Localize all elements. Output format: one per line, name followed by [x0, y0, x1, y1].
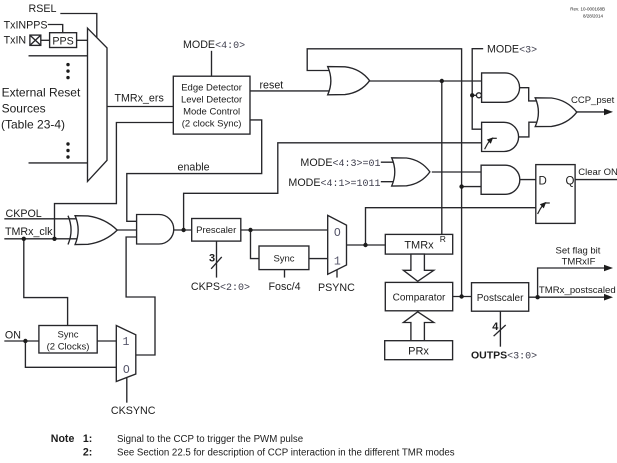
box Prescaler — [192, 219, 241, 242]
mux CKSYNC — [116, 326, 136, 382]
svg-text:1: 1 — [123, 336, 130, 349]
svg-text:O: O — [334, 227, 341, 240]
wire comparator signal to clearON AND — [462, 186, 482, 188]
ellipsis dots external sources bottom — [66, 142, 69, 145]
svg-text:Signal to the CCP to trigger t: Signal to the CCP to trigger the PWM pul… — [117, 434, 303, 445]
wire OR output to AND gates — [369, 80, 481, 82]
inverter bubble on MODE<3> input — [476, 93, 481, 98]
wire TMRx_clk down to sync2clocks — [24, 239, 68, 326]
svg-text:TxINPPS: TxINPPS — [4, 20, 48, 32]
and-gate CCP bottom (edge triggered) — [482, 122, 519, 151]
junction postscaler out — [535, 295, 539, 299]
svg-text:4: 4 — [492, 321, 499, 333]
svg-text:1:: 1: — [83, 433, 92, 445]
wire DFF clock — [366, 208, 536, 245]
wire MODE<4:0> stub — [211, 52, 213, 77]
junction TMRx_clk / mode control branch — [52, 237, 56, 241]
svg-text:CKPOL: CKPOL — [6, 208, 42, 220]
arrowhead TMRxIF — [604, 265, 613, 272]
svg-text:CKPS<2:0>: CKPS<2:0> — [191, 281, 250, 294]
svg-text:TMRxIF: TMRxIF — [562, 257, 596, 268]
svg-text:CCP_pset: CCP_pset — [571, 95, 615, 106]
svg-text:MODE<4:1>=1011: MODE<4:1>=1011 — [288, 177, 380, 190]
junction mux out / DFF clock — [363, 243, 367, 247]
bus slash CKPS — [212, 257, 222, 268]
svg-text:Sync: Sync — [273, 254, 294, 265]
wire prescaler out down to sync — [251, 230, 260, 259]
svg-text:TMRx: TMRx — [404, 239, 434, 251]
wire PSYNC select stub — [336, 270, 338, 277]
wire TxINPPS to PPS box — [49, 25, 63, 33]
svg-text:MODE<4:0>: MODE<4:0> — [183, 39, 245, 52]
wire PSYNC mux out to TMRx — [347, 244, 386, 246]
box Edge Detector / Level Detector / Mode Control — [173, 76, 250, 134]
svg-text:MODE<3>: MODE<3> — [487, 44, 537, 57]
or-gate CCP_pset — [535, 98, 577, 127]
and-gate clock gate AND1 — [137, 215, 174, 245]
junction AND1 out / clock branch — [181, 228, 185, 232]
junction ON / bypass branch — [23, 339, 27, 343]
wire OUTPS bus — [499, 311, 501, 346]
wire sync out to PSYNC mux 1 — [309, 258, 328, 260]
block arrow TMRx to comparator — [403, 254, 433, 281]
junction prescaler out / sync branch — [248, 228, 252, 232]
box Postscaler — [472, 283, 529, 312]
svg-text:2:: 2: — [83, 446, 92, 458]
svg-text:Sources: Sources — [2, 102, 46, 116]
arrowhead TMRx_postscaled — [604, 294, 613, 301]
wire MODE<4:1>=1011 input — [382, 181, 399, 183]
bus slash OUTPS — [494, 326, 505, 336]
svg-text:(2 clock Sync): (2 clock Sync) — [182, 119, 242, 130]
wire MODE<4:3>=01 input — [382, 161, 399, 163]
junction OR out / R line — [440, 79, 444, 83]
box PPS — [50, 33, 77, 48]
svg-text:Edge Detector: Edge Detector — [181, 83, 242, 94]
wire XOR out to AND1 — [117, 229, 137, 231]
wire ON bypass to mux 0 — [25, 341, 116, 367]
wire mode OR out to clearON AND — [433, 171, 482, 173]
wire external reset source input 2 — [29, 55, 87, 57]
or-gate reset OR — [328, 67, 370, 95]
svg-text:3: 3 — [209, 252, 215, 264]
svg-text:Rev. 10-000168B: Rev. 10-000168B — [570, 7, 605, 12]
SHAPES_START — [30, 28, 577, 381]
block arrow PRx to comparator — [403, 312, 433, 341]
ellipsis dots external sources top — [66, 63, 69, 66]
svg-text:(2 Clocks): (2 Clocks) — [47, 342, 90, 353]
wire CKSYNC select stub — [126, 378, 128, 403]
svg-text:CKSYNC: CKSYNC — [111, 405, 156, 417]
svg-text:RSEL: RSEL — [29, 3, 57, 15]
wire TMRx_clk to mode control box — [55, 123, 174, 239]
wire RSEL to mux select — [61, 14, 97, 39]
svg-text:reset: reset — [260, 80, 284, 92]
svg-text:D: D — [539, 176, 547, 188]
wire TMRx_ers — [107, 106, 173, 108]
wire CKPS bus — [216, 241, 218, 277]
svg-text:Prescaler: Prescaler — [196, 225, 236, 236]
edge trigger symbol on CCP bottom AND — [485, 137, 497, 149]
junction MODE<3> / bubble input — [470, 93, 474, 97]
svg-text:Postscaler: Postscaler — [477, 293, 524, 304]
svg-text:ON: ON — [5, 330, 21, 342]
dff Clear ON latch — [536, 165, 575, 224]
svg-text:Clear ON: Clear ON — [578, 167, 617, 178]
wire comparator out to postscaler — [453, 296, 472, 298]
DOTS_START — [22, 63, 540, 343]
wire TMRx_clk — [5, 238, 76, 240]
svg-text:PPS: PPS — [52, 36, 73, 48]
wire TxIN pin to PPS — [41, 39, 50, 41]
svg-text:Note: Note — [51, 433, 75, 445]
svg-text:MODE<4:3>=01: MODE<4:3>=01 — [300, 157, 380, 170]
wire Fosc/4 stub — [284, 270, 286, 277]
or-gate mode decode — [392, 158, 430, 186]
wire ON — [5, 340, 39, 342]
and-gate CCP top (with inverted MODE<3> input) — [482, 73, 520, 102]
junction TMRx_clk / down branch — [22, 237, 26, 241]
svg-text:Fosc/4: Fosc/4 — [269, 281, 301, 293]
svg-text:PRx: PRx — [408, 346, 429, 358]
svg-text:OUTPS<3:0>: OUTPS<3:0> — [471, 350, 537, 363]
box Sync Fosc/4 — [259, 246, 309, 270]
box PRx — [385, 341, 453, 360]
wire reset — [250, 90, 331, 92]
mux PSYNC — [328, 215, 347, 274]
box Comparator — [385, 282, 452, 310]
wire PPS to mux — [77, 39, 88, 41]
svg-text:TMRx_ers: TMRx_ers — [115, 93, 164, 105]
svg-text:TxIN: TxIN — [4, 35, 27, 47]
svg-text:PSYNC: PSYNC — [318, 282, 355, 294]
wire AND4 out to D input — [520, 179, 536, 181]
svg-text:1: 1 — [334, 256, 341, 269]
svg-text:enable: enable — [178, 162, 210, 174]
wire TMRx_postscaled — [529, 296, 608, 298]
wire CKSYNC mux out to AND1 — [126, 237, 155, 355]
mux reset source select — [88, 28, 108, 181]
svg-text:TMRx_postscaled: TMRx_postscaled — [539, 285, 616, 296]
wire AND2 out to CCP OR — [519, 88, 542, 101]
arrowhead CCP_pset — [604, 109, 613, 116]
xor-gate CKPOL polarity — [68, 216, 117, 245]
svg-text:See Section 22.5 for descripti: See Section 22.5 for description of CCP … — [117, 447, 455, 458]
wire Q to Clear ON — [575, 179, 616, 181]
svg-text:(Table 23-4): (Table 23-4) — [1, 118, 65, 132]
wire set TMRxIF flag — [538, 268, 608, 297]
svg-text:Comparator: Comparator — [393, 293, 446, 304]
wire MODE<3> — [472, 49, 482, 130]
svg-text:O: O — [123, 364, 130, 377]
wire sync2clocks out to mux 1 — [97, 340, 116, 342]
svg-text:Level Detector: Level Detector — [181, 95, 242, 106]
svg-text:8/28/2014: 8/28/2014 — [583, 14, 604, 19]
svg-text:R: R — [440, 234, 446, 244]
wire prescaler out to PSYNC mux 0 — [241, 229, 328, 231]
junction comparator fb / clearON AND input — [459, 184, 463, 188]
box Sync 2 clocks — [39, 326, 97, 354]
wire external reset source input 3 — [29, 162, 87, 164]
wire MODE<3> to inverted input — [472, 94, 476, 96]
wire enable — [127, 120, 262, 221]
svg-text:TMRx_clk: TMRx_clk — [5, 226, 53, 238]
wire prescaler input clock to edge-trigger inputs — [184, 143, 482, 230]
wire CKPOL — [5, 218, 76, 220]
svg-text:Mode Control: Mode Control — [183, 107, 240, 118]
wire comparator feedback to reset OR — [307, 49, 461, 297]
pin TxIN input pad — [30, 35, 41, 45]
wire CCP_pset output — [577, 111, 608, 113]
box TMRx — [385, 234, 452, 254]
svg-text:Q: Q — [566, 176, 575, 188]
svg-text:Sync: Sync — [57, 330, 78, 341]
wire AND1 out to prescaler — [174, 229, 192, 231]
junction comparator out — [459, 294, 463, 298]
svg-text:Set flag bit: Set flag bit — [556, 246, 601, 257]
wire AND3 out to CCP OR — [519, 122, 542, 137]
edge trigger symbol on DFF clock — [538, 202, 550, 214]
and-gate Clear ON — [481, 165, 520, 194]
wire R reset to TMRx — [441, 81, 443, 234]
svg-text:External Reset: External Reset — [2, 86, 81, 100]
